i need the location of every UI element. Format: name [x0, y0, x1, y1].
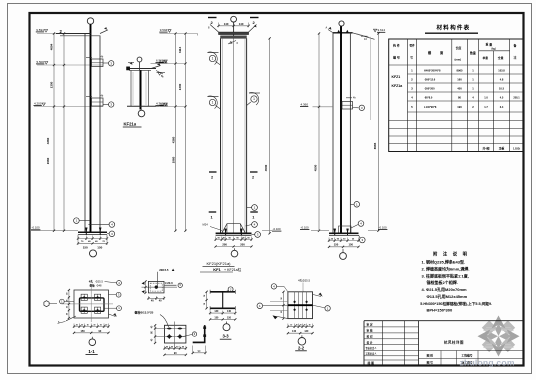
svg-text:80: 80	[458, 96, 461, 100]
detail C bolt row2 left	[166, 334, 172, 339]
svg-text:-0.100: -0.100	[379, 226, 387, 230]
detail C bolt row1 left	[167, 328, 172, 330]
detail B center line	[142, 286, 178, 288]
grid bubble below 2-2	[298, 335, 306, 345]
svg-text:附 注 说 明: 附 注 说 明	[433, 251, 469, 258]
svg-text:3.4: 3.4	[500, 105, 504, 109]
elevation 5.500 left	[36, 60, 103, 65]
right column base gusset	[339, 226, 352, 233]
left column connection box 1	[86, 56, 108, 67]
top dim 140 140	[217, 22, 249, 27]
svg-text:140: 140	[214, 310, 219, 313]
elevation 4.360 right of KF21a	[156, 102, 168, 107]
left column flange left	[84, 34, 86, 233]
svg-text:30: 30	[309, 325, 311, 327]
svg-text:50: 50	[281, 311, 283, 313]
section mark 2 top left	[208, 18, 217, 26]
svg-text:103.8: 103.8	[498, 69, 505, 73]
svg-text:零件: 零件	[410, 44, 416, 48]
svg-text:Φ25.5: Φ25.5	[96, 279, 104, 283]
section mark 2 mid right	[250, 172, 258, 179]
svg-text:140: 140	[239, 22, 244, 26]
detail 2-2 left dim	[283, 292, 285, 319]
svg-text:长度: 长度	[456, 45, 462, 50]
materials table title	[425, 24, 478, 34]
roof slope line right	[353, 33, 375, 41]
KF21 anchor bolt right	[240, 229, 243, 236]
svg-text:4.5: 4.5	[500, 96, 504, 100]
svg-text:190: 190	[457, 105, 462, 109]
detail D angle leg vertical	[204, 325, 206, 343]
KF21 base ref circle 1	[247, 205, 258, 211]
svg-text:描 图: 描 图	[368, 361, 375, 365]
detail C bottom dim row 1	[165, 347, 186, 349]
KF21a column flange left	[130, 70, 132, 106]
svg-text:数量: 数量	[470, 50, 476, 55]
detail 3-3 web	[222, 292, 224, 309]
left column top bracket	[56, 27, 108, 36]
detail 1-1 top text bolt spec	[89, 279, 104, 287]
detail C spec text	[135, 310, 169, 328]
detail B ref circle	[178, 283, 182, 287]
detail 2-2 thick flange line	[288, 304, 313, 306]
detail 2-2 ref circle top left	[271, 284, 288, 292]
KF21a column web thick	[140, 70, 142, 109]
right column web thick	[340, 26, 342, 233]
detail 1-1 bottom dim row 1	[74, 326, 109, 328]
detail 2-2 weld arrow bottom left	[273, 315, 288, 319]
KF21 column flange outer right	[246, 38, 248, 233]
detail 1-1 bolt BL	[81, 307, 87, 313]
base A dim row 1	[78, 238, 107, 240]
detail 1-1 bottom dim row 2	[74, 332, 109, 334]
watermark text zhulong.com	[460, 357, 515, 367]
svg-text:材料构件表: 材料构件表	[437, 24, 471, 32]
svg-text:抗风柱详图: 抗风柱详图	[443, 340, 464, 345]
detail 2-2 ref circle right	[313, 305, 331, 311]
svg-text:150: 150	[214, 316, 219, 319]
svg-text:1: 1	[253, 97, 255, 101]
KF21a dim side lines	[133, 72, 146, 105]
svg-text:30: 30	[290, 325, 292, 327]
svg-text:1.032t: 1.032t	[513, 147, 520, 150]
table row 2	[411, 78, 504, 82]
ref circle 3 right column box	[359, 105, 364, 110]
KF21 base plate	[216, 233, 252, 235]
svg-text:zhulong.com: zhulong.com	[460, 357, 515, 367]
detail B plate square	[148, 281, 164, 293]
base A ref circle 4 right	[88, 222, 114, 228]
KF21 base dim row 2	[216, 246, 252, 248]
grid bubble below KF21a	[138, 110, 145, 117]
svg-text:1960: 1960	[171, 156, 175, 163]
KF21a top bracket	[127, 62, 165, 78]
svg-text:1300: 1300	[178, 83, 182, 90]
right base ref circle 4	[351, 221, 364, 228]
right column base plate	[329, 233, 359, 235]
svg-text:1: 1	[252, 215, 254, 219]
elevation 6.300 right of KF21a	[151, 59, 168, 64]
right column connection box	[342, 96, 359, 109]
svg-text:20: 20	[105, 325, 107, 327]
svg-text:锚栓垫板2个相焊.: 锚栓垫板2个相焊.	[427, 279, 458, 285]
right column anchor bolt right	[346, 229, 349, 236]
svg-text:4360: 4360	[171, 136, 175, 143]
svg-text:35: 35	[66, 306, 68, 308]
detail 2-2 bottom dim row 1	[288, 326, 313, 328]
svg-text:L140*90*8: L140*90*8	[424, 105, 437, 109]
svg-text:50: 50	[281, 297, 283, 299]
svg-text:审 定: 审 定	[367, 323, 373, 327]
grid bubble below detail 1-1	[89, 337, 96, 346]
label 1-1	[86, 349, 98, 355]
detail 1-1 bolt BR	[95, 307, 101, 313]
svg-text:1.0: 1.0	[484, 96, 488, 100]
detail 1-1 center lines	[62, 284, 113, 322]
left column connection box 2	[86, 95, 109, 106]
label 3-3	[220, 334, 232, 340]
svg-text:Φ48: Φ48	[97, 283, 103, 287]
right base dim row 1	[329, 240, 359, 242]
detail 3-3 left dim	[206, 292, 208, 309]
elevation 6.500 center	[156, 58, 187, 63]
KF21 column flange inner left	[221, 38, 223, 233]
svg-text:400: 400	[457, 87, 462, 91]
ref circle 3 for box2	[109, 102, 114, 107]
svg-text:1: 1	[212, 101, 214, 105]
section mark 2 top right	[250, 18, 259, 26]
svg-text:单重: 单重	[483, 56, 489, 60]
section mark 1 near base left	[209, 212, 217, 219]
svg-text:净重: 净重	[499, 146, 505, 150]
svg-text:1: 1	[211, 215, 213, 219]
svg-text:2: 2	[252, 175, 254, 179]
svg-text:M24: M24	[203, 223, 209, 227]
elevation -0.100 right of right base	[368, 226, 387, 231]
KF21a bottom line	[127, 105, 156, 107]
detail 1-1 ref circle 3 right	[109, 292, 122, 297]
elevation -0.100 right of KF21 base	[262, 227, 281, 231]
svg-text:-0.100: -0.100	[32, 226, 40, 230]
detail 3-3 bottom dim row 1	[210, 312, 235, 314]
svg-text:35: 35	[66, 300, 68, 302]
svg-text:10.5: 10.5	[499, 87, 505, 91]
svg-text:+ KF21a柱: + KF21a柱	[224, 267, 242, 272]
base A ref circle 1 left	[74, 218, 90, 224]
base A ref circle 3 lower	[107, 231, 115, 237]
KF21a column flange right	[148, 70, 150, 106]
detail 2-2 ref circle left	[257, 303, 288, 309]
right column anchor bolt left	[333, 229, 336, 236]
right base ref circle 3	[359, 235, 366, 243]
detail 1-1 inner plate (thick rounded)	[80, 298, 105, 311]
elevation 4.360 left of right column	[300, 102, 333, 107]
detail 1-1 ref circle 1 right	[104, 306, 121, 311]
svg-text:1: 1	[212, 57, 214, 61]
svg-text:2: 2	[211, 175, 213, 179]
elevation 9.594 left	[36, 28, 85, 34]
KF21 column center line	[233, 38, 235, 233]
left column base plate	[78, 232, 107, 234]
svg-text:审 核: 审 核	[367, 329, 373, 333]
grid bubble top of right column	[339, 21, 344, 35]
svg-text:4094: 4094	[49, 43, 53, 50]
detail 1-1 weld leader bottom left	[58, 316, 77, 324]
svg-text:KFZ1: KFZ1	[392, 75, 401, 79]
detail B left dim	[142, 280, 147, 294]
detail 2-2 left continuation lines	[270, 302, 288, 311]
detail 2-2 spec leader	[302, 283, 304, 292]
svg-text:-260*12.6: -260*12.6	[424, 78, 436, 82]
svg-text:8965: 8965	[457, 69, 463, 73]
svg-text:40: 40	[65, 293, 68, 295]
small level flag B	[157, 73, 166, 78]
detail D angle leg horizontal	[193, 341, 206, 343]
detail 1-1 ref circle 4 top right	[105, 281, 122, 286]
detail B bottom dim	[147, 296, 165, 302]
elevation 9.614 top right	[374, 28, 386, 32]
svg-text:(mm): (mm)	[455, 58, 462, 62]
column cap plate 2	[221, 36, 247, 39]
svg-text:4.200: 4.200	[34, 101, 42, 105]
title block bottom labels	[427, 353, 473, 364]
svg-text:150: 150	[83, 245, 88, 249]
svg-text:160: 160	[457, 78, 462, 82]
svg-text:注: 注	[514, 55, 517, 60]
svg-text:78: 78	[204, 303, 206, 305]
svg-text:垫板: 垫板	[90, 283, 96, 287]
table row 3	[411, 87, 504, 91]
svg-text:140: 140	[304, 330, 309, 333]
svg-text:150: 150	[97, 245, 102, 249]
table total row	[482, 146, 520, 150]
svg-text:t=20.0: t=20.0	[165, 281, 173, 285]
svg-text:140: 140	[227, 310, 232, 313]
svg-text:8965: 8965	[373, 142, 377, 149]
svg-text:KF21a: KF21a	[124, 122, 137, 127]
ref circle 3 for box1	[109, 61, 114, 66]
svg-text:Φ13.5孔用M12x45mm: Φ13.5孔用M12x45mm	[427, 293, 468, 299]
detail 1-1 weld arrow bottom right	[109, 313, 117, 317]
weld symbol under cap	[228, 41, 239, 46]
svg-text:编 号: 编 号	[393, 55, 400, 60]
detail C bolt row2 right	[177, 334, 183, 339]
svg-text:KF21(KF21a): KF21(KF21a)	[206, 261, 231, 266]
svg-text:全重: 全重	[497, 56, 504, 60]
KF21 column flange outer left	[220, 38, 222, 233]
table row 1	[411, 69, 505, 73]
detail C left dim	[151, 324, 157, 344]
svg-text:4500: 4500	[314, 164, 318, 171]
detail 1-1 bolt TL	[81, 294, 87, 300]
svg-text:-80*8.0: -80*8.0	[424, 96, 433, 100]
right base ref circle 1	[350, 202, 359, 208]
weld tick top left of cap	[208, 25, 219, 33]
svg-text:4孔: 4孔	[89, 279, 93, 283]
detail 3-3 ref circle top	[226, 287, 234, 292]
svg-text:1300: 1300	[49, 81, 53, 88]
svg-text:150: 150	[227, 316, 232, 319]
KF21 anchor text M24	[203, 223, 223, 231]
svg-text:200: 200	[222, 242, 227, 246]
left dim line of right column	[318, 34, 320, 231]
right dim line short	[370, 37, 372, 120]
elevation 9.594 center	[159, 28, 197, 36]
svg-text:1960: 1960	[46, 157, 50, 164]
svg-text:2. 焊缝高度均为6mm,满焊.: 2. 焊缝高度均为6mm,满焊.	[422, 265, 470, 271]
detail C ref circle	[183, 332, 197, 337]
svg-text:H400*200*6*8: H400*200*6*8	[424, 69, 441, 73]
vertical dimension line 2 left column	[63, 34, 65, 231]
detail 2-2 bolt dots	[294, 301, 308, 311]
KF21 anchor bolt left	[224, 229, 227, 236]
section mark 2 mid left	[209, 172, 217, 179]
svg-text:螺栓Φ13.5*25: 螺栓Φ13.5*25	[135, 310, 154, 315]
svg-text:30: 30	[87, 325, 89, 327]
svg-text:20: 20	[81, 325, 83, 327]
table row 4	[411, 96, 520, 100]
detail 1-1 bolt TR	[95, 294, 101, 300]
right column top cap	[326, 26, 353, 32]
detail 1-1 hex bolt symbol	[44, 301, 57, 307]
svg-text:(kg): (kg)	[492, 48, 496, 50]
title block grid	[364, 321, 523, 366]
svg-text:150: 150	[334, 243, 339, 247]
svg-text:KF1: KF1	[213, 267, 221, 272]
grid bubble top of left column	[87, 18, 93, 33]
svg-text:140: 140	[224, 22, 229, 26]
right dim line of KF21	[269, 38, 271, 233]
grid bubble top of KF21 column	[231, 16, 237, 38]
svg-text:BPH=150*300: BPH=150*300	[427, 307, 453, 312]
svg-text:4.360: 4.360	[156, 101, 164, 105]
svg-text:78: 78	[204, 295, 206, 297]
svg-text:140: 140	[292, 330, 297, 333]
column cap plate (dark band)	[219, 32, 249, 35]
svg-text:4360: 4360	[46, 137, 50, 144]
svg-text:设 计: 设 计	[367, 340, 373, 344]
vertical dimension line 2 center	[185, 34, 187, 231]
grid bubble below 3-3	[223, 322, 230, 331]
svg-text:3-3: 3-3	[222, 334, 229, 339]
svg-text:20: 20	[100, 325, 102, 327]
elevation 4.200 left	[34, 101, 104, 106]
title block left labels	[366, 323, 378, 366]
grid bubble below KF21	[231, 248, 238, 257]
KF21 base dim row 1	[216, 239, 252, 241]
svg-text:6.500: 6.500	[156, 58, 164, 62]
svg-text:4. Φ21.5孔用M20x70mm: 4. Φ21.5孔用M20x70mm	[422, 286, 468, 292]
svg-text:9.594: 9.594	[160, 28, 168, 32]
svg-text:号: 号	[410, 56, 413, 60]
svg-text:5.500: 5.500	[37, 60, 45, 64]
grid bubble top of KF21a column	[137, 57, 142, 70]
grid bubble below right column	[340, 249, 347, 260]
table member id KFZ1	[392, 75, 403, 88]
KF21 column flange inner right	[244, 38, 246, 233]
KF21 base ref circle 3	[252, 232, 261, 238]
detail C bolt row1 right	[177, 328, 182, 330]
svg-text:重 量: 重 量	[486, 42, 493, 47]
svg-text:20: 20	[300, 325, 302, 327]
detail C bottom dim row 2	[165, 354, 186, 356]
detail 1-1 left dim line	[68, 290, 70, 318]
svg-text:258.1: 258.1	[513, 97, 520, 100]
detail 2-2 bottom dim row 2	[288, 332, 313, 334]
materials table grid	[389, 39, 524, 152]
label KF21a	[123, 122, 142, 128]
left column flange right	[99, 36, 101, 233]
svg-text:校 对: 校 对	[367, 335, 373, 339]
right column flange right	[349, 33, 351, 234]
svg-text:KFZ1a: KFZ1a	[392, 84, 403, 88]
KF21 base ref circle 4	[246, 222, 258, 228]
svg-text:9.594: 9.594	[36, 28, 44, 32]
detail B spec text	[159, 268, 174, 272]
svg-text:40: 40	[65, 313, 68, 315]
svg-text:1-1: 1-1	[88, 349, 95, 354]
base A dim row 2	[77, 235, 108, 250]
svg-text:9.614: 9.614	[378, 28, 386, 32]
svg-text:20: 20	[76, 325, 78, 327]
svg-text:共4根: 共4根	[482, 146, 489, 150]
callout flag 1 left lower	[208, 96, 221, 109]
right base dim row 2	[329, 246, 359, 248]
svg-text:1.7: 1.7	[484, 105, 488, 109]
svg-text:2-2: 2-2	[298, 345, 305, 350]
table header texts	[393, 42, 518, 62]
weld tick top right of cap	[249, 25, 257, 33]
svg-text:150: 150	[349, 243, 354, 247]
label 2-2	[295, 345, 307, 351]
detail B thickness text	[165, 281, 177, 285]
svg-text:4孔Φ25.5: 4孔Φ25.5	[298, 279, 310, 283]
svg-text:图 号: 图 号	[427, 361, 434, 365]
detail 1-1 base plate outline	[74, 290, 109, 318]
anchor bolt right of base A	[99, 228, 102, 235]
detail D bottom dim	[192, 346, 207, 355]
svg-text:2Φ15.5: 2Φ15.5	[159, 268, 169, 272]
svg-text:4.360: 4.360	[301, 102, 309, 106]
anchor bolt left of base A	[85, 228, 88, 235]
detail 3-3 top flange	[210, 290, 235, 294]
watermark logo zhulong	[478, 316, 520, 357]
vertical dimension line 1 left column	[53, 34, 55, 231]
svg-text:构 件: 构 件	[393, 43, 400, 48]
svg-text:30: 30	[93, 325, 95, 327]
detail 1-1 left ref circle 1	[60, 299, 74, 304]
svg-text:5.HN300*150柱脚锚栓(预埋),上下5.5,间距9.: 5.HN300*150柱脚锚栓(预埋),上下5.5,间距9.	[420, 301, 492, 306]
KF21 base gusset	[222, 224, 246, 234]
svg-text:1. 钢材Q235,焊条E43型.: 1. 钢材Q235,焊条E43型.	[422, 258, 466, 264]
label KF1 KF21a line2	[200, 267, 242, 272]
svg-text:4500: 4500	[264, 164, 268, 171]
table row 5	[411, 105, 504, 109]
callout flag 1 left upper	[208, 52, 221, 65]
callout flag right of column	[247, 92, 260, 105]
detail 3-3 bottom dim row 2	[210, 318, 235, 320]
elevation -0.100 left of right base	[300, 226, 329, 231]
section mark 1 near base right	[250, 212, 257, 219]
detail 2-2 column section lines	[295, 292, 307, 319]
left column web (thick)	[90, 24, 92, 232]
svg-text:-300*200: -300*200	[424, 87, 435, 91]
detail 2-2 plate rect	[288, 292, 313, 319]
right dim line of right column	[377, 34, 379, 231]
svg-text:20: 20	[296, 325, 298, 327]
svg-text:图 别: 图 别	[427, 353, 434, 357]
label KF21(KF21a) line1	[203, 261, 235, 266]
